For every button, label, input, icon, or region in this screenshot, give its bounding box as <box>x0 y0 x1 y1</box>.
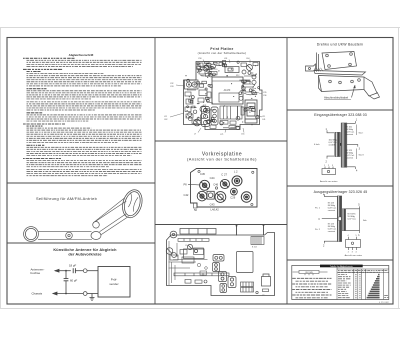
output primary winding bar <box>337 196 341 242</box>
svg-text:2: 2 <box>348 252 349 254</box>
svg-text:buchse: buchse <box>31 271 41 275</box>
left bracket <box>306 64 316 71</box>
small parts cluster top <box>185 63 258 129</box>
svg-text:C19: C19 <box>214 69 217 71</box>
wire to box bottom <box>87 293 98 295</box>
secondary lower labels <box>346 150 364 160</box>
board screws <box>198 170 254 205</box>
pin 2 out bottom-left <box>324 241 337 243</box>
relay box left <box>184 249 205 259</box>
svg-text:Ausgangsübertrager 323.026 45: Ausgangsübertrager 323.026 45 <box>314 190 368 194</box>
svg-text:Chassis: Chassis <box>32 292 43 296</box>
svg-text:3: 3 <box>352 252 353 254</box>
svg-text:C36: C36 <box>263 95 266 97</box>
svg-text:Sec II: Sec II <box>359 155 365 157</box>
svg-text:2: 2 <box>323 244 325 247</box>
output primary labels <box>315 202 337 233</box>
svg-text:C32: C32 <box>170 83 173 85</box>
ground symbol <box>90 294 95 301</box>
svg-text:Pfl: Pfl <box>184 183 188 187</box>
pin 2 primary bottom <box>327 156 334 159</box>
extra left traces <box>169 243 208 275</box>
coil box with two coils <box>185 80 199 89</box>
big plain rect <box>237 252 254 273</box>
PCB outline <box>184 62 263 130</box>
wire antenna top with arrowhead <box>55 269 71 272</box>
pill components with holes <box>202 107 219 127</box>
vertical rod <box>317 53 319 72</box>
svg-text:verzinnt: verzinnt <box>328 209 336 212</box>
cord drum lower <box>91 232 101 240</box>
svg-text:C26: C26 <box>230 195 235 199</box>
bottom right cell marks <box>384 295 388 297</box>
svg-text:Drehko und UKW Baustein: Drehko und UKW Baustein <box>317 43 363 47</box>
secondary bottom pin 4 <box>347 167 356 169</box>
lower box <box>319 76 365 92</box>
pin 4 out top-left <box>324 194 337 196</box>
label arrow <box>352 85 356 98</box>
top connector strip <box>180 229 216 235</box>
svg-text:verdrillt: verdrillt <box>329 143 336 146</box>
right edge component <box>262 274 271 286</box>
svg-text:312 345: 312 345 <box>305 272 313 274</box>
leader lines to labels <box>170 60 262 133</box>
transformer box hatched <box>220 106 242 119</box>
svg-text:Eingangsübertrager 323.088 03: Eingangsübertrager 323.088 03 <box>314 113 367 117</box>
vertical traces left <box>169 241 175 285</box>
left trimmer circles <box>166 244 197 257</box>
wire cap to connector <box>75 270 83 272</box>
capacitor 10pF <box>73 268 75 273</box>
svg-text:C41: C41 <box>262 119 265 121</box>
svg-text:5: 5 <box>356 235 357 237</box>
svg-text:Sec I: Sec I <box>359 133 364 135</box>
middle pulley <box>66 232 73 239</box>
connector circle bottom <box>83 292 87 296</box>
svg-text:50: 50 <box>194 208 197 212</box>
svg-text:60 pF: 60 pF <box>70 279 77 283</box>
secondary top pin <box>347 121 356 123</box>
svg-text:Tabelle der Abgleichwerte: Tabelle der Abgleichwerte <box>330 265 354 268</box>
ruler bar bottom <box>174 273 229 276</box>
svg-text:C33: C33 <box>170 86 173 88</box>
mid horizontal trace <box>173 259 208 261</box>
svg-text:R41: R41 <box>203 105 206 107</box>
svg-text:B 324: B 324 <box>252 247 257 249</box>
footprint bottom view p2 <box>322 167 336 175</box>
chassis wire with arrowhead <box>53 292 84 295</box>
IC shield box <box>212 77 243 104</box>
trimmer bottom-left <box>194 119 201 126</box>
tall component right <box>245 100 257 123</box>
ruler bar top <box>178 239 209 242</box>
svg-text:L7: L7 <box>194 134 196 136</box>
left cell text lines <box>292 278 331 297</box>
small marks bottom right <box>256 289 269 294</box>
capacitor 60pF <box>64 279 69 281</box>
vorkreis board outline <box>191 169 258 208</box>
table rows <box>338 274 361 298</box>
sec brackets <box>356 125 358 160</box>
svg-text:Abgleichvorschrift: Abgleichvorschrift <box>69 53 94 57</box>
svg-text:C71: C71 <box>220 134 223 136</box>
bottom pcb outline <box>167 233 275 296</box>
pfl arrow <box>188 183 200 186</box>
out pin 1 right bottom <box>359 231 361 233</box>
svg-text:Ansicht von unten: Ansicht von unten <box>320 180 338 183</box>
output secondary winding bar <box>342 209 346 231</box>
svg-text:4: 4 <box>356 170 358 173</box>
svg-text:C 27: C 27 <box>221 172 227 176</box>
svg-text:Abschirmblechkabel: Abschirmblechkabel <box>324 96 348 100</box>
svg-text:C58: C58 <box>198 58 201 60</box>
board bottom tab <box>194 203 198 208</box>
secondary loop bracket <box>346 209 360 231</box>
small parts lower left <box>185 280 207 284</box>
solder pad dots <box>185 63 256 125</box>
svg-text:4: 4 <box>348 235 349 237</box>
table header tiny text <box>338 270 388 272</box>
connector circle top <box>83 269 87 273</box>
Pruefsender box U1 <box>98 267 130 298</box>
svg-text:C64: C64 <box>246 58 249 60</box>
svg-text:L13: L13 <box>250 84 253 86</box>
pill components middle <box>213 255 237 293</box>
wire cap60 down to chassis wire <box>65 281 67 294</box>
trimmer C45 <box>200 180 210 190</box>
secondary mid pin 3 <box>347 145 358 147</box>
left small rects <box>170 248 204 263</box>
svg-text:Pri. 1: Pri. 1 <box>315 207 321 210</box>
svg-text:AF/ZF: AF/ZF <box>224 89 231 92</box>
component labels around pcb <box>164 58 266 136</box>
svg-text:verzinnt: verzinnt <box>346 133 354 136</box>
left pulley <box>24 227 39 242</box>
table header black bar <box>320 265 363 268</box>
trimmer C42 <box>197 191 207 201</box>
top-left knob <box>170 231 177 238</box>
svg-text:1: 1 <box>324 165 325 167</box>
svg-text:L18: L18 <box>224 58 227 60</box>
mid plate edge <box>314 71 366 76</box>
table inner dividers <box>337 266 389 300</box>
svg-text:C42: C42 <box>184 193 189 197</box>
svg-text:verzinnt: verzinnt <box>346 156 354 159</box>
svg-text:C35: C35 <box>263 92 266 94</box>
text panel body lines <box>23 58 142 175</box>
svg-text:Seilführung für AM/FM-Antrieb: Seilführung für AM/FM-Antrieb <box>36 196 97 201</box>
svg-text:L 2: L 2 <box>234 170 238 174</box>
svg-text:(Ansicht von der Schaltteilsei: (Ansicht von der Schaltteilseite) <box>187 156 257 161</box>
node junction <box>65 270 67 272</box>
small trimmer mid <box>231 188 238 195</box>
wiring squiggles <box>187 66 256 103</box>
svg-text:1: 1 <box>358 234 360 237</box>
svg-text:C44: C44 <box>210 176 215 180</box>
wire to box top <box>87 270 98 272</box>
staircase chart <box>367 274 380 299</box>
svg-text:2: 2 <box>326 160 328 163</box>
svg-text:R12: R12 <box>236 75 239 77</box>
svg-text:0,07 CuL: 0,07 CuL <box>348 219 357 221</box>
vorkreis labels <box>184 170 239 212</box>
footprint bottom view p3 <box>346 237 361 250</box>
svg-text:1: 1 <box>356 118 358 121</box>
pin 1 primary top <box>327 130 334 133</box>
trimmer C26 center-bottom <box>215 192 226 203</box>
svg-text:L11: L11 <box>164 116 167 118</box>
square component with hole <box>207 191 214 199</box>
dial cords <box>38 198 129 240</box>
transformer secondary winding bar <box>341 123 347 167</box>
right bracket piece <box>364 77 380 99</box>
svg-text:3: 3 <box>318 218 320 221</box>
svg-text:C46: C46 <box>213 182 218 186</box>
svg-text:L21: L21 <box>262 116 265 118</box>
output secondary labels <box>348 214 368 222</box>
svg-text:Prüf-: Prüf- <box>111 278 118 282</box>
left cell small box <box>293 270 328 275</box>
out pin 5 right top <box>359 206 361 208</box>
border frame <box>7 38 393 305</box>
svg-text:sender: sender <box>109 282 118 286</box>
svg-text:der Autovorkreise: der Autovorkreise <box>68 251 102 256</box>
svg-text:2: 2 <box>328 165 329 167</box>
svg-text:Pri. 2: Pri. 2 <box>315 228 321 231</box>
dense cluster small parts and pads <box>187 61 260 130</box>
dial drum ring <box>119 187 145 220</box>
coil L2 <box>232 176 242 186</box>
svg-text:4: 4 <box>356 252 357 254</box>
hatched transformer top right <box>251 237 264 245</box>
panel dividers <box>7 38 393 305</box>
random small labels <box>185 245 265 296</box>
svg-text:Sek: Sek <box>363 220 368 222</box>
top small box <box>225 67 239 73</box>
svg-text:C9: C9 <box>185 245 187 247</box>
svg-text:3: 3 <box>332 165 333 167</box>
core gap square <box>340 143 341 146</box>
svg-text:C43: C43 <box>210 202 215 206</box>
pin 3 out mid-left <box>322 218 338 220</box>
svg-text:4 274 082: 4 274 082 <box>379 302 390 304</box>
svg-text:3: 3 <box>359 148 361 151</box>
svg-text:5: 5 <box>358 204 360 207</box>
core gap white square <box>338 217 341 220</box>
svg-text:C45: C45 <box>200 172 205 176</box>
parts table frame <box>292 266 389 300</box>
secondary top labels <box>346 127 364 137</box>
top plate <box>322 52 357 70</box>
trimmer C27 <box>220 179 229 188</box>
trimmer circles <box>200 64 256 124</box>
svg-text:L4/L42: L4/L42 <box>211 207 220 211</box>
svg-text:a b: a b <box>262 294 265 296</box>
coil L4 bottom right <box>241 192 251 202</box>
svg-text:C55: C55 <box>241 134 244 136</box>
transformer primary winding bar <box>335 132 340 156</box>
cord pulley small upper <box>93 222 100 229</box>
primary labels <box>314 139 338 146</box>
svg-text:4 fach: 4 fach <box>314 144 321 146</box>
svg-text:18 pF: 18 pF <box>69 264 76 268</box>
mid plate hatch <box>315 68 324 72</box>
svg-text:Ansicht von unten: Ansicht von unten <box>345 254 363 257</box>
top pins <box>237 226 264 236</box>
svg-text:(Ansicht von der Schaltteilsei: (Ansicht von der Schaltteilseite) <box>198 51 247 55</box>
svg-text:verzinnt: verzinnt <box>328 230 336 233</box>
svg-text:C62: C62 <box>164 119 167 121</box>
bottom transformer hatched <box>241 282 254 292</box>
